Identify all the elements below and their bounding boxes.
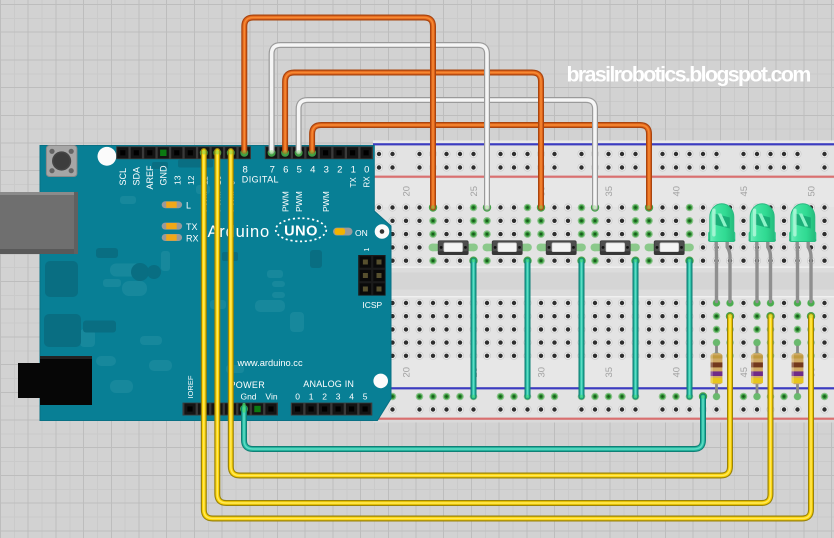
resistor R1 470 ohm xyxy=(711,339,723,400)
svg-text:6: 6 xyxy=(283,165,288,176)
svg-text:TX: TX xyxy=(186,222,198,232)
svg-text:SCL: SCL xyxy=(118,168,128,186)
LED D2 green xyxy=(749,204,776,307)
svg-text:PWM: PWM xyxy=(294,191,304,212)
watermark text xyxy=(567,63,811,87)
svg-text:20: 20 xyxy=(401,367,412,378)
svg-text:www.arduino.cc: www.arduino.cc xyxy=(237,358,303,368)
svg-text:2: 2 xyxy=(337,165,342,176)
connected pin glows xyxy=(200,149,316,413)
Arduino UNO board U1 xyxy=(40,146,391,421)
svg-text:RX: RX xyxy=(362,176,371,188)
svg-text:GND: GND xyxy=(159,165,169,186)
svg-text:0: 0 xyxy=(364,165,369,176)
wire pin8 to S1, orange xyxy=(244,18,433,208)
wire pin6 to S3, orange xyxy=(285,73,541,208)
wire pin9 to LED D1 anode, yellow xyxy=(231,151,730,476)
svg-text:TX: TX xyxy=(349,177,358,188)
jumper S2 to ground rail, teal xyxy=(525,261,531,397)
svg-text:RX: RX xyxy=(186,233,199,243)
svg-text:20: 20 xyxy=(401,186,412,197)
svg-text:Vin: Vin xyxy=(265,392,277,402)
svg-text:50: 50 xyxy=(806,186,817,197)
jumper S4 to ground rail, teal xyxy=(633,261,639,397)
ICSP header xyxy=(358,255,385,296)
svg-text:ANALOG IN: ANALOG IN xyxy=(303,379,354,389)
svg-text:45: 45 xyxy=(739,186,750,197)
svg-text:2: 2 xyxy=(322,392,327,402)
power and analog pin headers xyxy=(183,403,373,416)
svg-text:PWM: PWM xyxy=(280,191,290,212)
svg-text:25: 25 xyxy=(469,186,480,197)
svg-text:POWER: POWER xyxy=(230,380,266,390)
pushbutton S5 xyxy=(645,241,694,255)
resistor R2 470 ohm xyxy=(751,339,763,400)
svg-text:3: 3 xyxy=(324,165,329,176)
jumper S3 to ground rail, teal xyxy=(579,261,585,397)
breadboard top red rail line xyxy=(373,176,834,178)
svg-text:3: 3 xyxy=(336,392,341,402)
svg-text:40: 40 xyxy=(671,367,682,378)
via hole right edge xyxy=(375,224,390,239)
wire GND to bottom rail, teal xyxy=(244,397,703,450)
jumper S5 to ground rail, teal xyxy=(687,261,693,397)
svg-text:L: L xyxy=(186,200,191,210)
USB connector xyxy=(0,192,78,254)
svg-text:5: 5 xyxy=(297,165,302,176)
LED D1 green xyxy=(708,204,735,307)
svg-text:4: 4 xyxy=(349,392,354,402)
board component silhouettes xyxy=(44,160,322,394)
svg-text:SDA: SDA xyxy=(132,167,142,186)
wire pin4 to S5, orange xyxy=(312,125,649,208)
pushbutton S1 xyxy=(429,241,478,255)
svg-text:35: 35 xyxy=(604,186,615,197)
svg-text:1: 1 xyxy=(309,392,314,402)
wire end connection tints xyxy=(202,150,814,411)
wire end glows row a xyxy=(429,203,815,400)
jumper S1 to ground rail, teal xyxy=(471,261,477,397)
svg-text:12: 12 xyxy=(186,175,196,185)
breadboard xyxy=(373,141,834,423)
LED ON on board xyxy=(333,228,353,236)
svg-text:Gnd: Gnd xyxy=(240,392,256,402)
LED TX on board xyxy=(162,223,182,230)
svg-text:5: 5 xyxy=(363,392,368,402)
svg-text:ON: ON xyxy=(355,228,368,238)
top power rail holes xyxy=(375,150,829,172)
pushbutton S4 xyxy=(591,241,640,255)
board silkscreen labels xyxy=(118,165,383,402)
bottom power rail plus row holes xyxy=(375,406,829,414)
svg-text:1: 1 xyxy=(351,165,356,176)
mounting hole top-left xyxy=(98,147,117,166)
svg-text:DIGITAL: DIGITAL xyxy=(242,175,279,185)
breadboard column numbers top band xyxy=(401,186,817,197)
digital pin header xyxy=(116,146,373,159)
wire pin5 to S4, white xyxy=(299,100,595,208)
svg-text:PWM: PWM xyxy=(321,191,331,212)
LED D3 green xyxy=(789,204,816,307)
pushbutton S3 xyxy=(537,241,586,255)
breadboard upper section holes rows a-e xyxy=(375,204,829,265)
bottom power rail ground row holes (connected, green) xyxy=(375,393,828,401)
svg-text:13: 13 xyxy=(172,175,182,185)
LED L on board xyxy=(162,201,182,208)
breadboard bottom blue rail line xyxy=(373,387,834,389)
power jack J1 xyxy=(18,356,92,405)
breadboard top blue rail line xyxy=(373,143,834,145)
svg-text:30: 30 xyxy=(536,367,547,378)
mounting hole bottom-right xyxy=(373,374,388,389)
svg-text:35: 35 xyxy=(604,367,615,378)
svg-text:ICSP: ICSP xyxy=(362,300,382,310)
svg-text:1: 1 xyxy=(364,248,371,252)
svg-text:40: 40 xyxy=(671,186,682,197)
breadboard lower section holes rows f-j xyxy=(375,299,829,360)
pushbutton S2 xyxy=(483,241,532,255)
LED RX on board xyxy=(162,234,182,241)
svg-text:45: 45 xyxy=(739,367,750,378)
svg-text:0: 0 xyxy=(295,392,300,402)
breadboard column numbers bottom band xyxy=(401,367,817,378)
wire pin11 to LED D3 anode, yellow xyxy=(204,151,811,519)
svg-text:AREF: AREF xyxy=(145,165,155,190)
svg-text:UNO: UNO xyxy=(284,223,318,239)
reset button SW-reset xyxy=(46,146,77,177)
wire pin10 to LED D2 anode, yellow xyxy=(217,151,770,503)
svg-text:4: 4 xyxy=(310,165,315,176)
wire pin7 to S2, white xyxy=(272,45,487,208)
svg-text:IOREF: IOREF xyxy=(186,375,195,398)
breadboard bottom red rail line xyxy=(373,418,834,420)
resistor R3 470 ohm xyxy=(792,339,804,400)
svg-text:brasilrobotics.blogspot.com: brasilrobotics.blogspot.com xyxy=(567,63,811,87)
